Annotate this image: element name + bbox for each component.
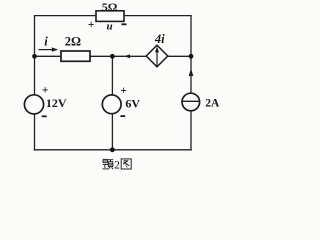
node dot left junction (32, 54, 37, 59)
wire left vertical branch (34, 16, 36, 150)
caption glyph ti (of 题2图) (102, 159, 113, 169)
wire bottom (35, 149, 192, 151)
svg-text:6V: 6V (125, 96, 140, 110)
label - of 6V (120, 115, 125, 117)
svg-text:4i: 4i (154, 32, 165, 46)
svg-text:12V: 12V (46, 96, 67, 110)
wire 5ohm resistor to top-right corner (124, 15, 191, 17)
dependent current source 4i diamond (146, 45, 168, 67)
arrow current i (39, 49, 54, 51)
svg-text:u: u (106, 21, 112, 33)
svg-text:+: + (88, 19, 95, 31)
caption glyph tu (of 题2图) (121, 159, 131, 169)
arrow up on 2A branch (189, 69, 194, 76)
node dot middle junction above 6V (110, 54, 115, 59)
svg-text:+: + (120, 85, 127, 97)
svg-text:5Ω: 5Ω (102, 0, 118, 14)
node dot bottom junction below 6V (110, 147, 115, 152)
arrow left-pointing on middle wire (124, 54, 130, 58)
arrow inside diamond (156, 49, 158, 66)
wire middle: left junction to 2ohm resistor (35, 55, 62, 57)
svg-text:2A: 2A (205, 98, 220, 110)
wire top-left to 5ohm resistor (35, 15, 97, 17)
resistor 5ohm (96, 11, 124, 22)
node dot right junction (189, 54, 194, 59)
label - of 12V (42, 115, 47, 117)
wire 6V branch vertical (111, 56, 113, 150)
svg-text:+: + (42, 84, 49, 96)
svg-text:2: 2 (114, 160, 120, 172)
voltage source 6V (102, 95, 121, 114)
svg-text:i: i (44, 35, 48, 49)
wire middle: diamond source to right junction (168, 55, 191, 57)
resistor 2ohm (61, 51, 90, 61)
wire right vertical branch (190, 16, 192, 150)
current source 2A (182, 93, 200, 111)
svg-text:2Ω: 2Ω (65, 35, 81, 49)
label - of u (121, 23, 126, 25)
wire middle: 2ohm resistor to diamond source (90, 55, 146, 57)
voltage source 12V (24, 95, 43, 114)
